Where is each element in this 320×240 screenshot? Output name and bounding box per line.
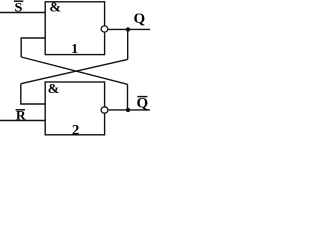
NAND gate U2 body: [45, 82, 104, 135]
svg-text:1: 1: [71, 42, 78, 57]
svg-text:Q: Q: [134, 11, 146, 27]
wire vertical to Qbar junction: [127, 84, 129, 110]
wire diagonal Q-bar to gate1: [21, 57, 127, 84]
wire feedback to gate2 upper input: [21, 84, 45, 104]
wire Q output: [109, 28, 151, 30]
wire vertical from Q junction: [127, 29, 129, 59]
svg-text:2: 2: [72, 122, 80, 138]
svg-text:&: &: [49, 1, 61, 16]
NAND gate U1 body: [45, 2, 104, 55]
wire R input: [0, 120, 45, 122]
wire Q-bar output: [109, 109, 151, 111]
U2 output inversion bubble: [101, 107, 108, 113]
svg-text:S: S: [15, 0, 23, 14]
junction node Q-bar: [126, 108, 130, 112]
junction node Q: [126, 27, 130, 31]
wire diagonal Q to gate2: [21, 59, 128, 83]
wire S input: [0, 12, 45, 14]
wire feedback to gate1 lower input: [21, 38, 45, 57]
U1 output inversion bubble: [101, 26, 108, 32]
svg-text:&: &: [48, 82, 60, 97]
svg-text:Q: Q: [137, 96, 149, 112]
